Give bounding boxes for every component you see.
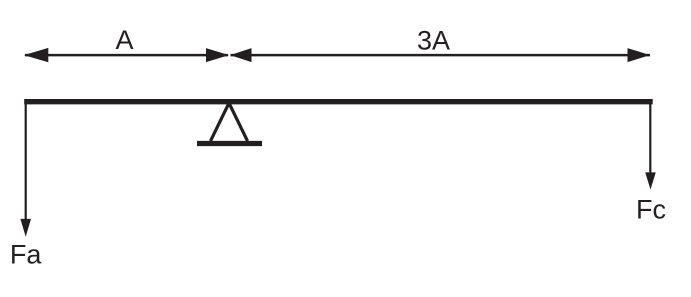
fulcrum triangle: [211, 103, 248, 141]
fulcrum base: [197, 141, 262, 146]
svg-text:3A: 3A: [417, 26, 450, 56]
svg-text:A: A: [115, 25, 133, 55]
dimension arrowhead A right: [206, 48, 229, 62]
svg-text:Fc: Fc: [636, 195, 666, 225]
dimension arrowhead 3A right: [628, 48, 651, 62]
dimension line A: [25, 54, 228, 57]
force line Fa: [25, 99, 27, 222]
dimension line 3A: [231, 54, 651, 57]
dimension arrowhead A left: [24, 48, 48, 62]
force line Fc: [649, 101, 651, 174]
dimension arrowhead 3A left: [230, 48, 251, 62]
svg-text:Fa: Fa: [10, 240, 42, 270]
force arrowhead Fc: [645, 172, 656, 189]
force arrowhead Fa: [20, 219, 31, 237]
beam (lever bar): [24, 99, 653, 104]
